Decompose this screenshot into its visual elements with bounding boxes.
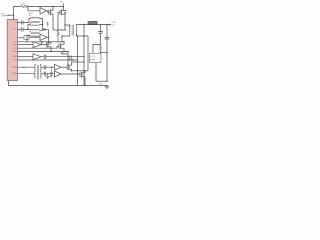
resistor R6	[69, 56, 70, 61]
svg-text:FB: FB	[15, 60, 17, 62]
wire x77.5 vertical	[77, 36, 79, 86]
svg-text:12V: 12V	[111, 25, 115, 27]
node VIN stub at F2	[62, 3, 64, 6]
resistor R2	[57, 30, 59, 43]
wire R4 top left	[93, 44, 101, 53]
op-amp T0 gate driver	[38, 8, 47, 14]
wire pin y73.4	[18, 73, 35, 75]
wire bottom rail	[9, 81, 108, 86]
wire ladder y60	[18, 59, 78, 61]
svg-text:CS: CS	[15, 22, 17, 24]
wire ladder y51.5	[18, 51, 69, 53]
op-amp B	[33, 42, 41, 48]
wire ladder y56.5 into C	[18, 56, 34, 58]
node rail end	[63, 6, 64, 7]
capacitor C8	[44, 55, 46, 59]
resistor R5 horizontal	[61, 52, 68, 55]
wire y81.2	[96, 80, 107, 82]
wire TA left bottom loop	[28, 25, 31, 30]
wire C out long	[41, 56, 84, 58]
wire TA bottom right	[39, 24, 42, 26]
node VOUT arrow	[107, 24, 110, 26]
wire ladder y45 into B	[18, 44, 34, 46]
svg-text:SDRB: SDRB	[13, 73, 17, 75]
pin labels inside block	[12, 22, 17, 75]
svg-text:OPTO: OPTO	[90, 56, 95, 58]
wire hook from rail to gate driver	[28, 7, 38, 11]
wire secondary top to rail	[76, 24, 111, 26]
transistor F2	[58, 7, 65, 31]
wire B out	[41, 44, 46, 46]
svg-text:FDBK: FDBK	[90, 59, 95, 61]
wire x68 vertical	[67, 52, 69, 65]
op-amp C	[33, 54, 41, 60]
wire top rail	[14, 6, 64, 8]
resistor R4	[99, 44, 101, 53]
transformer TB	[31, 29, 40, 30]
transformer TA	[31, 17, 40, 18]
wire x84 vertical	[83, 25, 85, 86]
wire VIN arrow	[6, 14, 10, 16]
wire vertical x48.5	[48, 30, 50, 42]
svg-text:110: 110	[29, 15, 32, 17]
wire VIN to block	[9, 7, 14, 20]
wire A out to x48.5	[47, 36, 49, 38]
capacitor C6 on x107	[105, 25, 110, 82]
capacitor C2	[18, 28, 31, 32]
node x58-y30	[57, 29, 58, 30]
svg-text:VIN: VIN	[60, 1, 64, 3]
transformer TC	[34, 65, 35, 78]
wire fb tap	[101, 51, 108, 53]
svg-text:CT: CT	[15, 37, 17, 39]
wire ladder y48.2	[18, 46, 60, 48]
node F1 drain	[52, 6, 53, 7]
node x62-y30	[61, 29, 62, 30]
inductor L1 output	[88, 21, 97, 24]
transistor F3	[46, 42, 51, 52]
op-amp D	[55, 64, 62, 70]
op-amp A	[40, 34, 47, 40]
wire TA right riser	[39, 19, 42, 30]
wire pin y67.3	[18, 66, 35, 68]
pin stub with box	[18, 37, 25, 39]
wire primary bottom	[62, 36, 70, 42]
wire ladder y42.5	[18, 41, 65, 43]
diode D1	[44, 28, 46, 31]
ground G1	[46, 74, 50, 79]
transistor F4	[59, 42, 64, 52]
capacitor C7 drop	[51, 67, 52, 68]
wire cap1 riser	[29, 19, 31, 23]
transistor F1	[49, 7, 53, 31]
resistor Rsense on top rail	[22, 5, 28, 8]
wire E out	[61, 73, 80, 75]
ground G3	[50, 73, 53, 77]
svg-text:SUPPLY: SUPPLY	[1, 16, 8, 18]
node rail junctions	[100, 24, 101, 25]
svg-text:0.025: 0.025	[20, 3, 24, 5]
svg-text:OUTB: OUTB	[13, 45, 17, 47]
node VIN junction	[13, 15, 14, 16]
transistor M6	[80, 71, 85, 86]
wire gate feed vertical x58	[57, 12, 59, 30]
node x65-y30	[64, 29, 65, 30]
wire y70.8	[72, 70, 89, 72]
wire TB bottom stub	[27, 35, 31, 41]
transformer T1	[69, 25, 70, 36]
wire y62	[72, 61, 85, 63]
IC U1 (controller block)	[7, 20, 17, 81]
ground G2	[105, 86, 110, 89]
capacitor C4	[41, 72, 54, 76]
wire switch node y30	[53, 29, 65, 31]
wire D out	[61, 66, 67, 68]
capacitor C3	[41, 65, 54, 69]
svg-text:COMP: COMP	[12, 56, 17, 58]
op-amp E	[55, 71, 62, 77]
transistor M5	[67, 62, 71, 71]
node VIN input label	[1, 13, 8, 17]
wire TB right top	[39, 29, 42, 31]
capacitor C5 on x100.5	[98, 25, 102, 45]
resistor R7	[71, 56, 72, 61]
wire box bottom	[95, 63, 97, 82]
capacitor small C snub	[47, 22, 49, 27]
feedback box	[90, 53, 102, 62]
wire box to amp A	[29, 36, 40, 38]
capacitor C1	[18, 21, 30, 25]
wire secondary bottom	[76, 36, 88, 71]
wire primary top	[65, 24, 70, 26]
